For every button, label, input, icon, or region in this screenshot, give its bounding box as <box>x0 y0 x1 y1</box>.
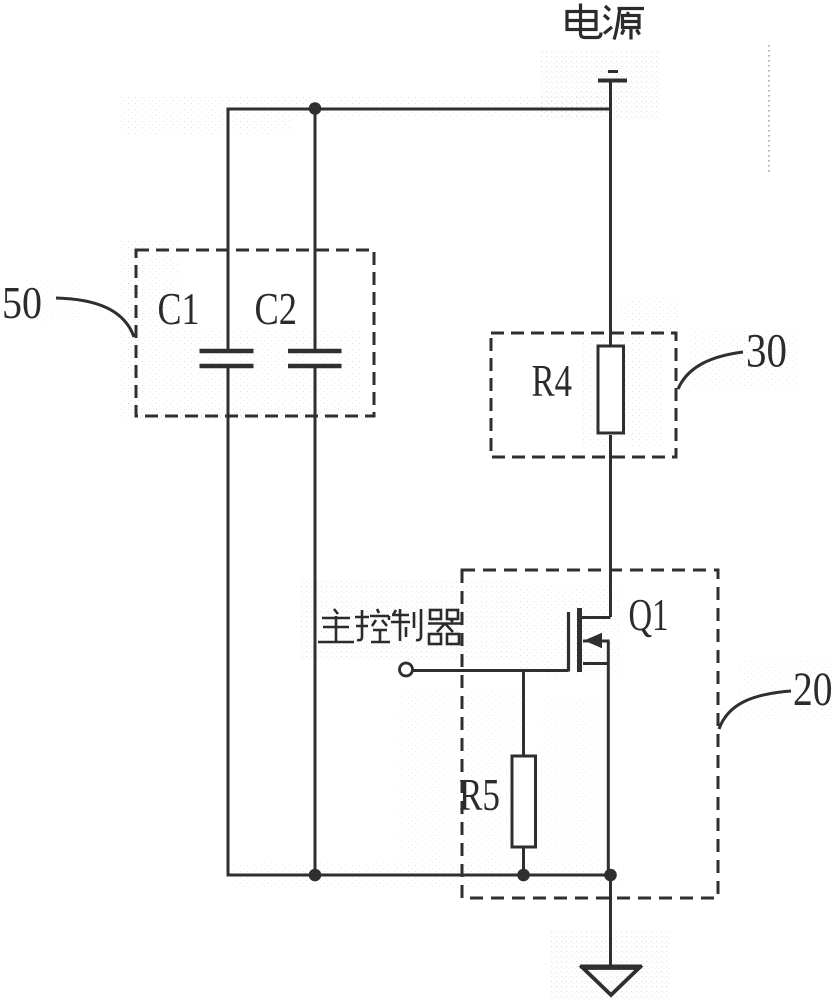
capacitor C2 plates <box>288 349 342 354</box>
svg-text:20: 20 <box>793 663 833 716</box>
wire: R5 bottom to bottom rail <box>522 847 525 875</box>
dashed box 50 <box>136 250 374 416</box>
transistor Q1 source stub <box>583 662 610 665</box>
wire: bottom rail to ground <box>609 875 612 966</box>
resistor R4 body <box>598 346 624 433</box>
dashed box 30 <box>491 333 676 457</box>
wire: gate line down to R5 <box>522 671 525 757</box>
leader line for 50 <box>56 298 134 337</box>
resistor R5 body <box>512 756 536 847</box>
node: junction dot on top wire <box>309 102 322 115</box>
transistor Q1 channel bar <box>577 608 582 672</box>
node: junction dot main wire bottom <box>604 869 617 882</box>
leader line for 20 <box>719 691 791 729</box>
label 电源 (power supply) <box>567 4 644 40</box>
input terminal circle <box>400 663 413 676</box>
wire: second vertical (through C2) <box>314 109 317 350</box>
transistor Q1 gate bar <box>567 612 570 672</box>
wire: gate horizontal <box>413 669 569 672</box>
node: junction dot C2 wire bottom <box>309 869 322 882</box>
svg-text:50: 50 <box>2 277 42 328</box>
wire: bottom rail <box>228 874 611 877</box>
wire: top horizontal <box>228 108 611 111</box>
transistor Q1 body stub with arrow <box>583 640 610 643</box>
svg-text:R5: R5 <box>459 769 500 820</box>
dashed box 20 <box>462 570 718 898</box>
label 主控制器 (main controller) <box>318 609 462 644</box>
transistor Q1 drain stub <box>581 616 611 619</box>
svg-text:R4: R4 <box>532 355 573 406</box>
wire: main vertical from power bar to R4 <box>609 82 612 345</box>
svg-text:Q1: Q1 <box>629 590 669 640</box>
wire: R4 bottom to MOSFET drain <box>609 435 612 617</box>
node: junction dot R5 bottom <box>517 869 530 882</box>
svg-text:C2: C2 <box>255 283 298 334</box>
svg-text:30: 30 <box>746 325 787 378</box>
capacitor C1 plates <box>200 349 254 354</box>
wire: left vertical (through C1) <box>227 108 230 351</box>
wire: source down to bottom rail <box>607 664 610 876</box>
ground symbol <box>580 965 642 969</box>
power terminal bar <box>608 70 618 73</box>
leader line for 30 <box>678 352 743 389</box>
scan artifact: faint dotted vertical line <box>768 45 770 172</box>
svg-text:C1: C1 <box>158 283 200 334</box>
wire: body to source vertical <box>607 641 610 664</box>
